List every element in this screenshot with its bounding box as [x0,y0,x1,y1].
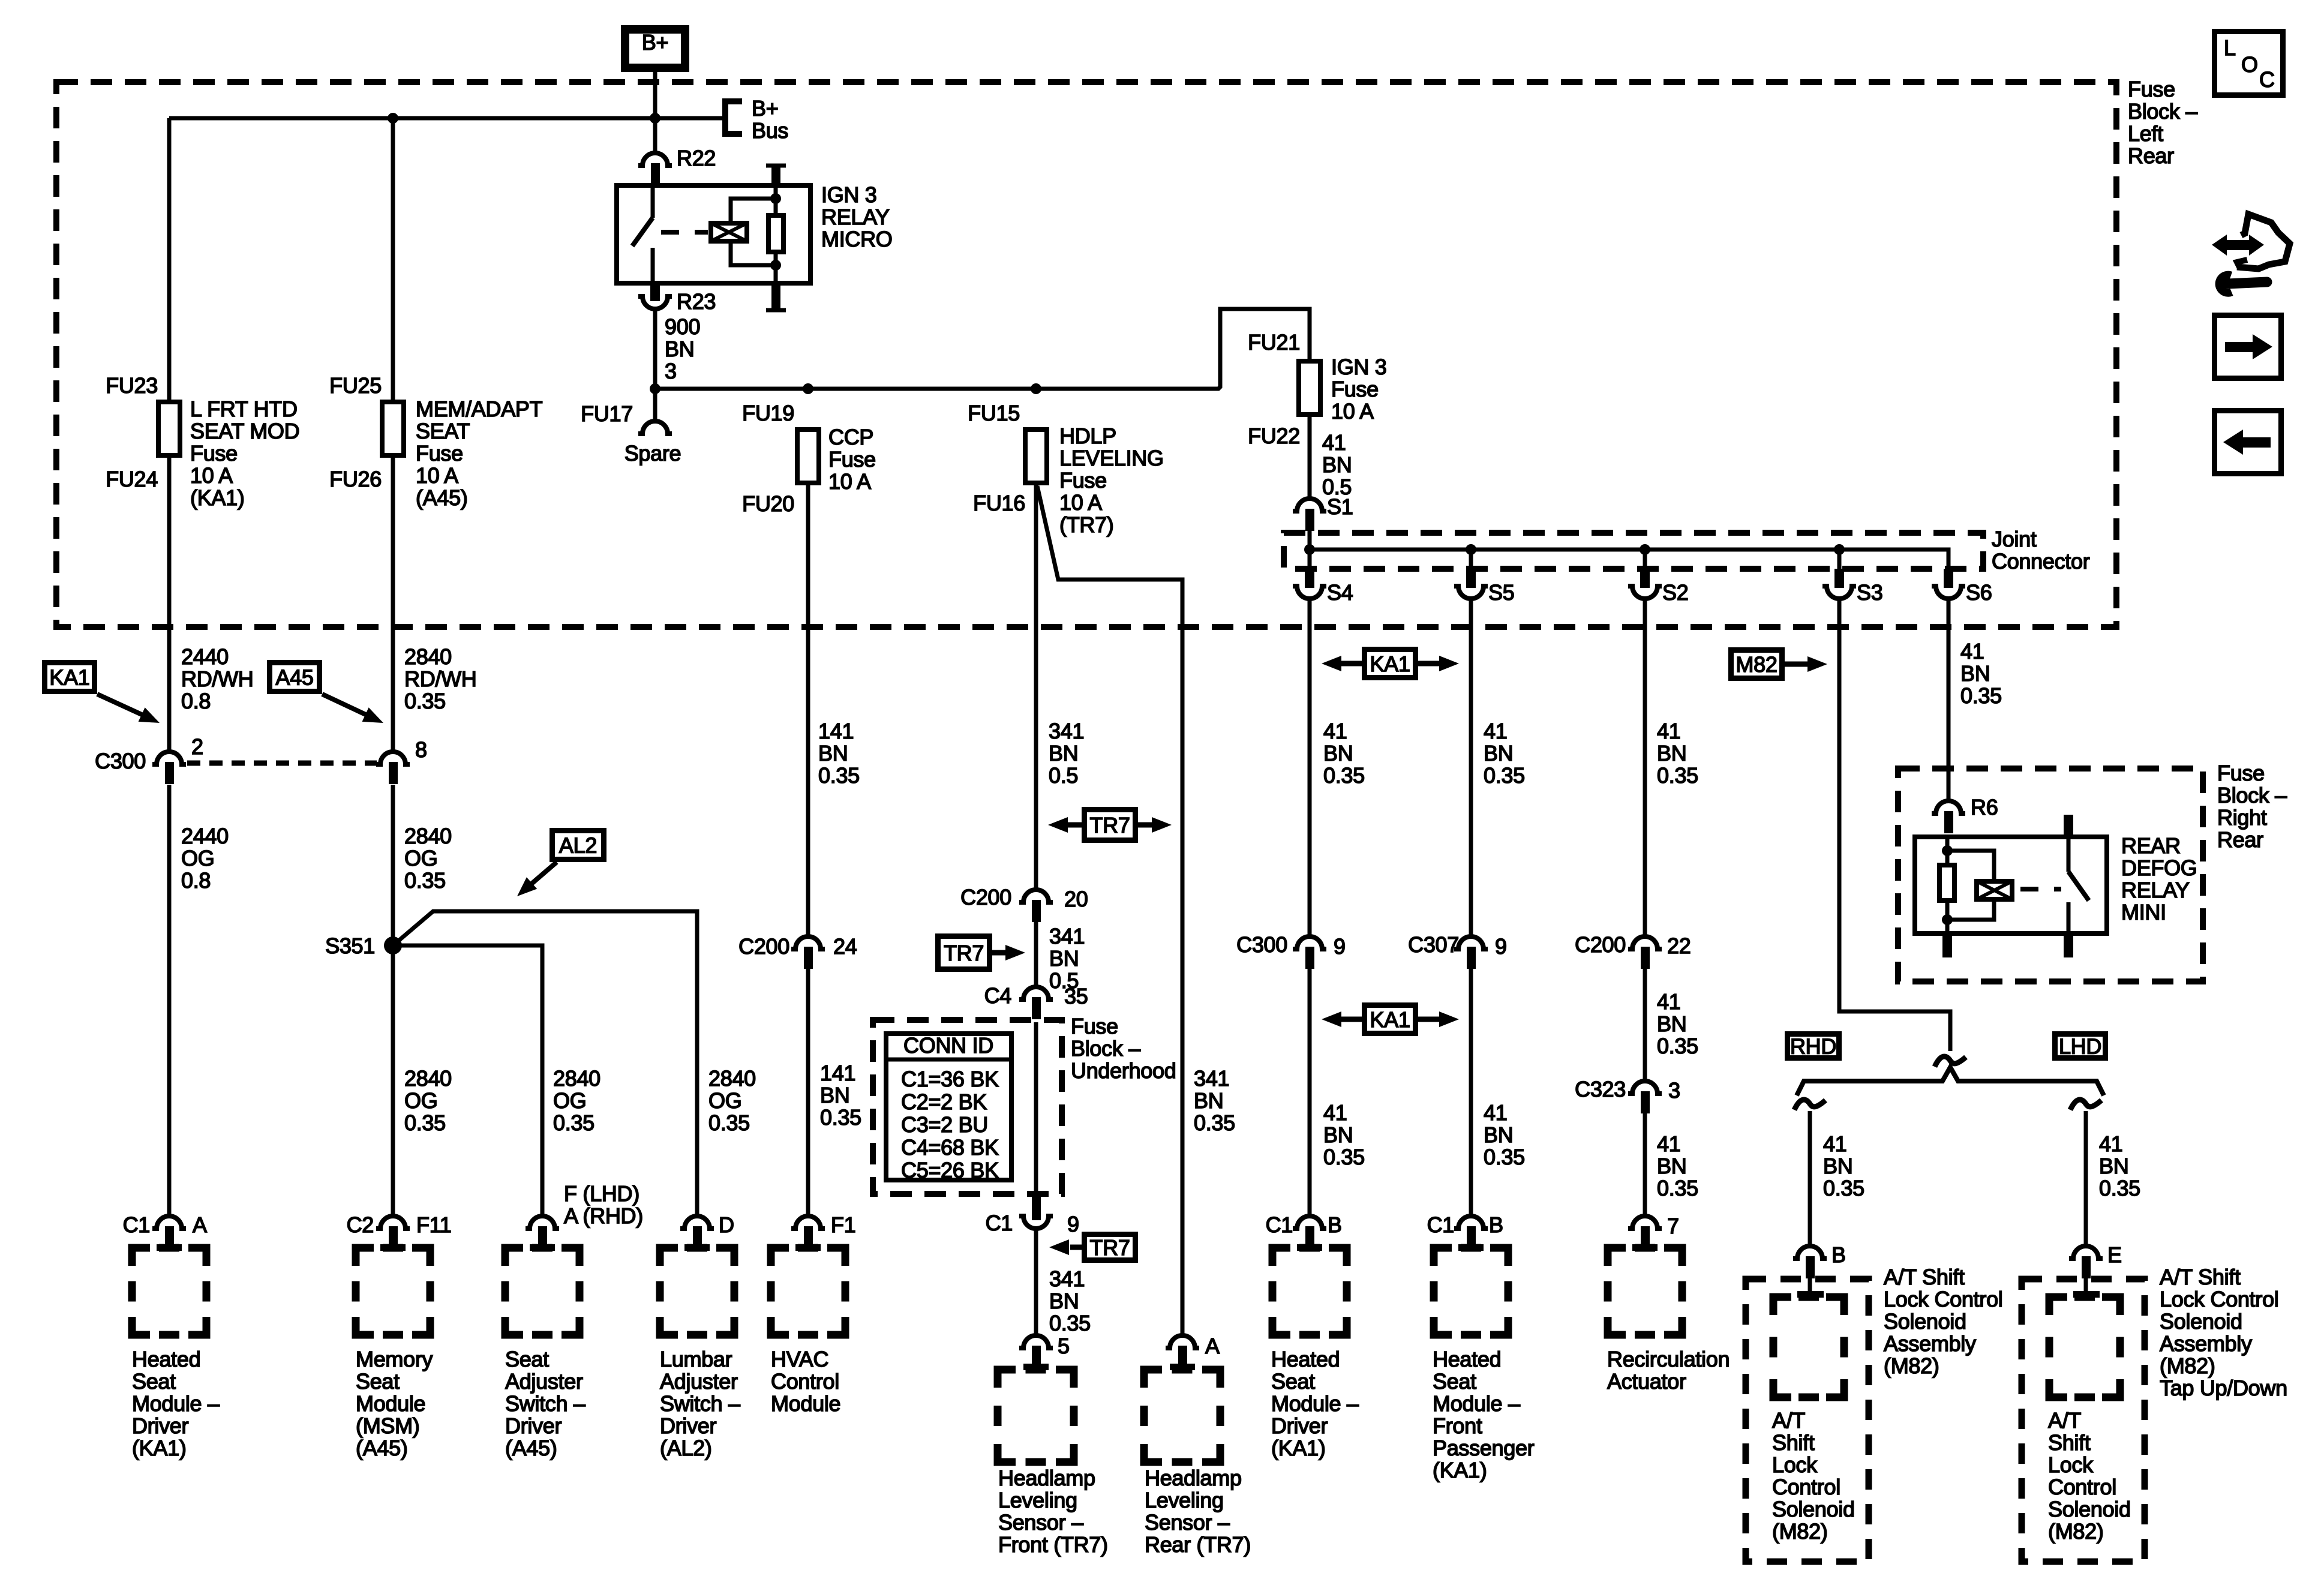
svg-text:Driver: Driver [505,1413,562,1438]
svg-text:BN: BN [818,741,848,766]
label: 141 BN 0.35 (a) [818,719,860,788]
svg-text:141: 141 [818,719,854,743]
svg-text:FU21: FU21 [1248,330,1300,355]
label: 41 BN 0.35 S4 lower [1323,1100,1365,1169]
svg-text:0.35: 0.35 [404,1110,446,1135]
svg-text:BN: BN [1049,741,1078,766]
defog coil L2 [1977,881,2012,899]
svg-text:2840: 2840 [553,1066,600,1091]
svg-text:E: E [2107,1242,2122,1267]
svg-text:S6: S6 [1966,580,1992,605]
relay internal wires to pins [774,183,778,286]
wire FU26 down (2840 RD/WH) [391,457,395,752]
label: 341 BN 0.35 (front) [1049,1266,1091,1335]
label: 2840 OG 0.35 (c) [553,1066,600,1135]
label: L FRT HTD SEAT MOD Fuse 10 A (KA1) [190,397,299,510]
svg-text:(M82): (M82) [2048,1519,2104,1544]
module: Recirculation Actuator [1608,1248,1682,1335]
svg-text:9: 9 [1495,934,1507,959]
svg-text:BN: BN [820,1083,849,1107]
svg-text:IGN 3: IGN 3 [821,182,877,207]
module: A/T Shift Lock Control Solenoid Assembly (LHD) [2022,1279,2145,1562]
svg-text:Assembly: Assembly [1884,1331,1976,1356]
svg-text:0.35: 0.35 [818,763,860,788]
svg-text:Joint: Joint [1992,527,2037,551]
splice S5 [1454,550,1514,605]
svg-text:R23: R23 [677,289,716,314]
svg-text:Headlamp: Headlamp [998,1466,1095,1490]
svg-text:Sensor –: Sensor – [998,1510,1083,1535]
svg-text:Leveling: Leveling [998,1488,1077,1512]
svg-text:Tap Up/Down: Tap Up/Down [2160,1376,2287,1400]
label: FU17 [581,401,633,426]
svg-text:BN: BN [1657,1154,1686,1178]
svg-text:F1: F1 [831,1212,855,1237]
connector FU17 Spare cavity [638,421,672,434]
svg-text:41: 41 [1657,989,1680,1014]
svg-text:Sensor –: Sensor – [1145,1510,1230,1535]
svg-text:A45: A45 [275,665,313,690]
break symbol B wire [1794,1100,1825,1110]
svg-text:0.35: 0.35 [1484,763,1525,788]
svg-text:A/T: A/T [1772,1408,1805,1433]
module: A/T Shift Lock Control Solenoid (LHD inner) [2049,1297,2120,1397]
connector R6 [1932,795,1998,833]
icon: body repair (arrow, panel, wrench) [2212,214,2290,293]
svg-text:Underhood: Underhood [1071,1058,1176,1083]
wire B to solenoid [1797,1277,1824,1298]
svg-text:2840: 2840 [404,644,452,669]
label: Heated Seat Module - Driver (KA1) left [132,1347,220,1460]
svg-text:SEAT: SEAT [416,419,470,443]
label: Fuse Block - Underhood [1071,1014,1176,1083]
module: Lumbar Adjuster Switch Driver [660,1248,734,1335]
node: ign3 bus left [650,383,660,394]
svg-text:B: B [1489,1212,1503,1237]
wire S2 down [1643,599,1647,936]
relay U1 IGN 3 RELAY MICRO box [617,185,810,283]
wire C307-9 down [1469,967,1473,1216]
svg-text:10 A: 10 A [828,469,871,494]
label: 41 BN 0.5 [1322,430,1352,499]
node: S3 [1834,544,1845,555]
connector hls front pin 5 [1019,1334,1070,1370]
svg-text:RELAY: RELAY [821,205,890,229]
svg-text:Block –: Block – [2128,99,2197,124]
svg-text:C200: C200 [960,885,1011,909]
LOC legend box [2215,32,2283,95]
svg-text:Driver: Driver [660,1413,717,1438]
svg-text:C323: C323 [1575,1077,1626,1101]
svg-text:R6: R6 [1971,795,1998,819]
option flag KA1 [45,663,163,730]
svg-text:BN: BN [1657,1011,1686,1036]
svg-text:Control: Control [1772,1475,1840,1499]
module: Heated Seat Module Driver [1272,1248,1347,1335]
label: 2840 OG 0.35 (a) [404,824,452,893]
icon: forward arrow box [2215,316,2281,379]
label: CCP Fuse 10 A [828,425,876,494]
svg-text:SEAT MOD: SEAT MOD [190,419,299,443]
svg-text:(KA1): (KA1) [1433,1458,1487,1482]
label: A/T Shift Lock Control Solenoid (M82) RHD [1772,1408,1855,1544]
C300 gang dashes [187,761,377,766]
svg-text:Lock: Lock [2048,1452,2094,1477]
wire B+ to FU25 [391,118,395,401]
connector C1 pin 9 [986,1194,1079,1236]
label: 900 BN 3 [665,314,700,383]
label: 41 BN 0.35 S2 lower [1657,1131,1698,1200]
svg-text:Control: Control [2048,1475,2116,1499]
defog pin bottom left [1942,936,1952,957]
splice S3 [1822,550,1882,605]
defog actuation dashes [2020,887,2061,891]
svg-text:Module –: Module – [1271,1391,1359,1416]
module: Memory Seat Module [356,1248,430,1335]
wire S351 to seat adjuster [393,945,542,1216]
svg-text:0.35: 0.35 [1657,1176,1698,1200]
break symbol E wire [2070,1100,2101,1110]
svg-text:BN: BN [1194,1088,1223,1113]
svg-text:Shift: Shift [2048,1430,2091,1455]
svg-text:(KA1): (KA1) [132,1436,187,1460]
connector C300 pin 8 [376,737,427,784]
fuse FU25/FU26 MEM/ADAPT SEAT [382,402,404,455]
label: Heated Seat Module - Front Passenger (KA1) [1433,1347,1535,1482]
svg-text:2440: 2440 [181,824,229,848]
svg-text:(TR7): (TR7) [1059,512,1114,537]
svg-text:Module: Module [356,1391,425,1416]
connector E [2069,1242,2122,1278]
svg-text:24: 24 [833,934,857,959]
svg-text:B: B [1831,1242,1846,1267]
svg-text:M82: M82 [1736,652,1777,677]
svg-text:41: 41 [1823,1131,1846,1156]
fuse block - right rear (dashed) [1898,769,2203,981]
svg-text:RD/WH: RD/WH [181,667,253,691]
svg-text:S2: S2 [1662,580,1688,605]
wire S4 down [1308,599,1312,936]
label: 2840 OG 0.35 (b) [404,1066,452,1135]
connector lumbar pin D [680,1212,734,1251]
CONN ID table [884,1033,1014,1182]
svg-text:Module –: Module – [1433,1391,1520,1416]
connector C200 pin 20 [960,885,1088,922]
svg-text:900: 900 [665,314,700,339]
node: FU15 tap [1031,383,1041,394]
svg-text:C300: C300 [95,749,146,773]
defog coil leg bottom [1945,903,1950,936]
wire B+ rail [169,116,723,121]
wire S1 to bus [1308,531,1312,550]
label: FU21 [1248,330,1300,355]
svg-text:Lock Control: Lock Control [1884,1287,2003,1311]
svg-text:Fuse: Fuse [190,441,238,466]
svg-text:KA1: KA1 [1370,652,1410,676]
svg-text:S351: S351 [325,933,375,958]
svg-text:BN: BN [1322,452,1352,477]
svg-text:(M82): (M82) [1772,1519,1828,1544]
svg-text:C300: C300 [1236,932,1287,957]
svg-text:5: 5 [1058,1334,1070,1358]
defog coil leg top [1945,834,1950,863]
svg-text:Lock: Lock [1772,1452,1818,1477]
svg-text:KA1: KA1 [49,665,89,690]
wire S5 down [1469,599,1473,936]
wire E to solenoid [2073,1277,2100,1298]
svg-text:OG: OG [404,846,437,870]
label: 2840 OG 0.35 (d) [708,1066,756,1135]
svg-text:F (LHD): F (LHD) [564,1181,639,1206]
svg-text:KA1: KA1 [1370,1007,1410,1032]
label: 341 BN 0.35 (rear) [1194,1066,1235,1135]
svg-text:(M82): (M82) [2160,1353,2215,1378]
option flag A45 [270,663,387,730]
svg-text:Connector: Connector [1992,549,2090,574]
joint connector (dashed box) [1284,533,1983,569]
svg-text:Fuse: Fuse [1059,468,1107,493]
svg-text:Assembly: Assembly [2160,1331,2252,1356]
node: defog top [1942,845,1953,856]
defog resistor [1939,865,1954,900]
wire C300-9 down [1308,967,1312,1216]
svg-text:(KA1): (KA1) [190,485,245,510]
B+ power symbol [625,29,685,68]
connector C2 pin F11 [347,1212,452,1251]
option flag RHD [1788,1034,1839,1059]
svg-text:0.35: 0.35 [404,689,446,713]
node: coil-resistor bottom [770,260,781,271]
svg-text:C1: C1 [123,1212,150,1237]
svg-text:O: O [2241,52,2258,77]
label: 41 BN 0.35 S6 [1960,639,2002,708]
split brace RHD/LHD [1797,1067,2104,1095]
connector hls rear pin A [1166,1334,1220,1370]
svg-text:Solenoid: Solenoid [2160,1309,2242,1334]
svg-text:OG: OG [404,1088,437,1113]
label: 341 BN 0.5 (a) [1049,719,1084,788]
svg-text:D: D [719,1212,734,1237]
svg-text:0.35: 0.35 [553,1110,594,1135]
svg-text:Switch –: Switch – [660,1391,740,1416]
svg-text:Adjuster: Adjuster [660,1369,738,1394]
svg-text:F11: F11 [416,1212,451,1237]
label: 141 BN 0.35 (b) [820,1061,861,1130]
label: FU26 [329,467,382,491]
svg-text:HVAC: HVAC [771,1347,828,1371]
node: FU19 tap [803,383,813,394]
svg-text:Block –: Block – [1071,1036,1140,1061]
svg-text:Block –: Block – [2217,783,2287,807]
svg-text:MEM/ADAPT: MEM/ADAPT [416,397,543,421]
svg-text:C1: C1 [1427,1212,1454,1237]
module: Heated Seat Module Front Passenger [1434,1248,1508,1335]
defog switch bottom stub [2067,902,2071,936]
wire ign3 bus [655,309,1310,389]
svg-text:341: 341 [1194,1066,1229,1091]
svg-text:C307: C307 [1408,932,1459,957]
svg-text:FU17: FU17 [581,401,633,426]
label: FU19 [742,401,794,425]
svg-text:0.35: 0.35 [1049,1311,1091,1335]
wire 141 BN upper [806,484,810,936]
connector B [1793,1242,1846,1278]
option flag KA1 (lower) [1322,1005,1459,1034]
node: FU25 tap [388,113,398,124]
relay pin 86 (top, unused) [766,166,786,183]
svg-text:OG: OG [181,846,214,870]
module: Headlamp Leveling Sensor Front [998,1370,1074,1462]
label: 41 BN 0.35 B [1823,1131,1864,1200]
label: FU24 [106,467,158,491]
svg-text:Control: Control [771,1369,839,1394]
svg-text:Rear: Rear [2128,143,2174,168]
label: Headlamp Leveling Sensor - Front (TR7) [998,1466,1108,1557]
label: Seat Adjuster Switch - Driver (A45) [505,1347,585,1460]
wire 2440 OG [167,785,172,1216]
svg-text:AL2: AL2 [559,833,597,858]
svg-text:Leveling: Leveling [1145,1488,1224,1512]
svg-text:CONN ID: CONN ID [903,1033,993,1058]
svg-text:Heated: Heated [1271,1347,1340,1371]
svg-text:0.35: 0.35 [1960,683,2002,708]
svg-text:41: 41 [1960,639,1984,664]
fuse FU15/FU16 HDLP LEVELING [1025,430,1047,483]
wire 341 BN 0.5 main [1034,484,1038,890]
label: 41 BN 0.35 S5 [1484,719,1525,788]
svg-text:A/T Shift: A/T Shift [2160,1265,2241,1289]
svg-text:41: 41 [1657,1131,1680,1156]
connector HVAC pin F1 [791,1212,855,1251]
label: 41 BN 0.35 E [2099,1131,2140,1200]
svg-text:L: L [2224,35,2236,60]
connector C1 pin A [123,1212,207,1251]
svg-text:10 A: 10 A [1059,490,1102,515]
svg-text:0.35: 0.35 [1484,1145,1525,1169]
svg-text:Front (TR7): Front (TR7) [998,1532,1108,1557]
fuse FU23/FU24 L FRT HTD SEAT MOD [158,402,180,455]
label: 41 BN 0.35 S2 mid [1657,989,1698,1058]
module: Seat Adjuster Switch Driver [505,1248,580,1335]
svg-text:41: 41 [2099,1131,2122,1156]
svg-text:B+: B+ [642,30,668,55]
wire B+ down [653,72,657,153]
relay pin 85 (bottom, unused) [766,286,786,310]
svg-text:B+: B+ [752,96,778,121]
svg-text:REAR: REAR [2121,833,2181,858]
label: Heated Seat Module - Driver (KA1) [1271,1347,1359,1460]
svg-text:2: 2 [191,734,203,759]
label: HDLP LEVELING Fuse 10 A (TR7) [1059,424,1164,537]
label: FU23 [106,373,158,398]
svg-text:OG: OG [708,1088,741,1113]
node: coil-resistor top [770,193,781,204]
relay resistor R [768,199,783,265]
label: Joint Connector [1992,527,2090,574]
svg-text:0.35: 0.35 [1323,763,1365,788]
svg-text:0.35: 0.35 [1323,1145,1365,1169]
svg-text:BN: BN [1657,741,1686,766]
label: IGN 3 RELAY MICRO [821,182,893,251]
wire 141 BN lower [806,967,810,1216]
relay coil L1 [711,223,747,241]
defog coil loop top [1947,851,1994,879]
svg-text:0.35: 0.35 [1657,763,1698,788]
svg-text:10 A: 10 A [190,463,233,488]
label: Recirculation Actuator [1607,1347,1730,1394]
connector C200 pin 24 [738,934,857,969]
svg-text:Seat: Seat [1433,1369,1476,1394]
svg-text:0.35: 0.35 [1657,1034,1698,1058]
svg-text:A (RHD): A (RHD) [564,1203,643,1228]
svg-text:Fuse: Fuse [2128,77,2175,101]
B+ Bus terminal [725,96,788,143]
svg-text:TR7: TR7 [1089,1235,1130,1260]
svg-text:C200: C200 [738,934,789,959]
svg-text:Seat: Seat [132,1369,176,1394]
option flag TR7 (left) [1049,1235,1136,1260]
fuse block - underhood (dashed) [873,1020,1062,1194]
svg-text:341: 341 [1049,1266,1085,1291]
svg-text:LEVELING: LEVELING [1059,446,1164,470]
wire C200-22 down [1643,967,1647,1081]
svg-text:9: 9 [1334,934,1346,959]
svg-text:BN: BN [1960,661,1990,686]
svg-text:RD/WH: RD/WH [404,667,476,691]
defog pin top right [2064,815,2073,834]
svg-text:C4: C4 [984,983,1011,1008]
svg-text:0.8: 0.8 [181,868,211,893]
label: 41 BN 0.35 S2 [1657,719,1698,788]
splice S4 [1293,550,1353,605]
svg-text:Recirculation: Recirculation [1607,1347,1730,1371]
svg-text:Spare: Spare [624,441,681,466]
svg-text:FU20: FU20 [742,491,794,516]
label: 41 BN 0.35 S5 lower [1484,1100,1525,1169]
svg-text:BN: BN [1484,741,1513,766]
label: 341 BN 0.5 (b) [1049,924,1085,993]
svg-text:Driver: Driver [1271,1413,1328,1438]
svg-text:0.35: 0.35 [2099,1176,2140,1200]
svg-text:0.35: 0.35 [1194,1110,1235,1135]
label: 2440 OG 0.8 [181,824,229,893]
svg-text:L FRT HTD: L FRT HTD [190,397,298,421]
relay K2 REAR DEFOG RELAY MINI box [1915,837,2107,933]
svg-text:B: B [1328,1212,1342,1237]
svg-text:BN: BN [1823,1154,1852,1178]
label: 2440 RD/WH 0.8 [181,644,253,713]
svg-text:FU16: FU16 [973,491,1025,515]
wire C323-3 down [1643,1112,1647,1216]
svg-text:(A45): (A45) [505,1436,557,1460]
option flag AL2 [512,831,603,902]
wire 41 BN to B [1808,1111,1812,1246]
svg-text:(MSM): (MSM) [356,1413,419,1438]
svg-text:(M82): (M82) [1884,1353,1939,1378]
option flag LHD [2055,1034,2106,1059]
svg-text:RHD: RHD [1790,1034,1836,1059]
connector C300 pin 9 [1236,932,1346,969]
svg-text:BN: BN [1323,1122,1353,1147]
svg-text:Bus: Bus [752,118,788,143]
svg-text:BN: BN [1484,1122,1513,1147]
svg-text:41: 41 [1322,430,1346,455]
svg-text:341: 341 [1049,719,1084,743]
option flag M82 [1731,650,1828,679]
connector R22 [638,146,716,185]
wire S6 down [1947,599,1951,801]
svg-text:41: 41 [1657,719,1680,743]
